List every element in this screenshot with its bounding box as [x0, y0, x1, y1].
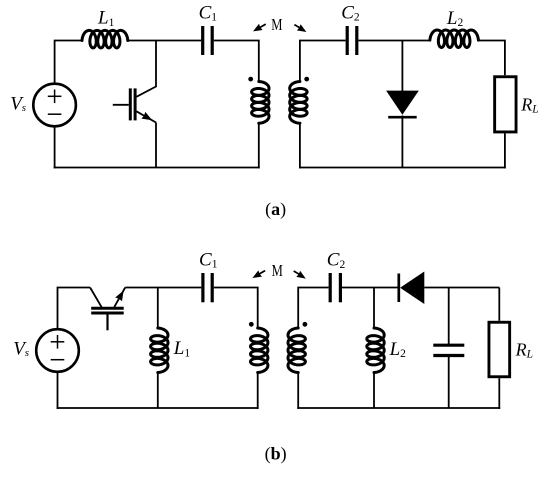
svg-text:C2: C2	[341, 2, 360, 23]
transformer primary winding La (circuit a)	[252, 82, 269, 124]
mutual coupling arrow right (circuit a)	[294, 24, 306, 32]
svg-text:Vs: Vs	[13, 339, 29, 360]
polarity dot: secondary (circuit b)	[303, 322, 308, 327]
wire: L2 to load rail (circuit a)	[478, 41, 505, 76]
wire: emitter to C1 with L1 tap (circuit b)	[125, 287, 201, 289]
wire: secondary to bottom rail (circuit a)	[299, 123, 301, 168]
capacitor C2 (circuit a)	[347, 26, 357, 55]
svg-text:M: M	[272, 261, 283, 280]
wire: secondary rail top (circuit a)	[300, 41, 346, 82]
polarity dot: primary (circuit b)	[249, 322, 254, 327]
wire: emitter to bottom rail (circuit a)	[155, 123, 157, 168]
transformer primary winding La (circuit b)	[251, 328, 268, 373]
transistor Q1 IGBT gate bar (circuit a)	[129, 88, 132, 120]
transistor Q2 IGBT gate bar (circuit b)	[91, 312, 124, 315]
transistor Q2 gate lead (circuit b)	[106, 315, 108, 331]
wire: Vs to bottom rail (circuit a)	[54, 126, 56, 168]
capacitor C3 output filter (circuit b)	[433, 345, 464, 355]
wire: primary to bottom rail (circuit a)	[258, 123, 260, 168]
svg-text:L1: L1	[173, 338, 191, 359]
wire: collector riser (circuit a)	[136, 41, 156, 97]
svg-text:C1: C1	[199, 2, 218, 23]
wire: load to bottom rail (circuit b)	[498, 378, 500, 409]
wire: L2 branch lower (circuit b)	[373, 373, 375, 409]
wire: load to bottom rail (circuit a)	[504, 133, 506, 168]
svg-text:L2: L2	[389, 339, 407, 360]
wire: primary to bottom rail (circuit b)	[257, 373, 259, 409]
wire: Vs to bottom rail (circuit b)	[57, 372, 59, 409]
wire: C2 to L2 with diode tap (circuit a)	[358, 40, 430, 42]
wire: C2 to diode with L2 tap (circuit b)	[342, 287, 398, 289]
wire: filter cap branch lower (circuit b)	[448, 357, 450, 408]
bottom rail secondary side (circuit b)	[297, 407, 500, 409]
wire: filter cap branch upper (circuit b)	[448, 288, 450, 345]
bottom rail secondary side (circuit a)	[299, 167, 506, 169]
wire: diode branch upper (circuit a)	[401, 41, 403, 92]
svg-text:(a): (a)	[265, 199, 286, 220]
mutual coupling arrow right (circuit b)	[294, 271, 306, 279]
polarity dot: secondary (circuit a)	[304, 77, 309, 82]
wire: C1 to primary rail (circuit a)	[214, 41, 259, 82]
resistor RL (circuit a)	[495, 77, 516, 132]
transformer secondary winding Lb (circuit a)	[290, 82, 307, 124]
svg-text:M: M	[271, 15, 282, 34]
resistor RL (circuit b)	[489, 322, 510, 377]
wire: load rail upper (circuit b)	[498, 288, 500, 321]
polarity dot: primary (circuit a)	[248, 77, 253, 82]
wire: secondary rail top (circuit b)	[298, 288, 328, 329]
wire: diode to filter cap tap (circuit b)	[424, 287, 499, 289]
svg-text:L2: L2	[446, 8, 464, 29]
mutual coupling arrow left (circuit b)	[252, 270, 265, 278]
diode D1 (circuit a)	[386, 91, 419, 118]
svg-text:RL: RL	[520, 95, 538, 116]
svg-text:L1: L1	[97, 8, 115, 29]
wire: L2 branch upper (circuit b)	[373, 288, 375, 329]
inductor L2 (circuit a)	[430, 30, 479, 48]
wire: L1 to C1 with transistor tap (circuit a)	[128, 40, 201, 42]
svg-text:C1: C1	[199, 249, 218, 270]
bottom rail primary side (circuit a)	[54, 167, 260, 169]
wire: top-left corner Vs to transistor (circuit b)	[58, 288, 91, 330]
capacitor C2 (circuit b)	[330, 273, 340, 302]
capacitor C1 (circuit a)	[203, 26, 213, 55]
transformer secondary winding Lb (circuit b)	[288, 328, 305, 373]
wire: C1 to primary rail (circuit b)	[214, 288, 258, 329]
svg-text:RL: RL	[515, 340, 533, 361]
svg-text:Vs: Vs	[10, 94, 26, 115]
wire: collector lead (circuit b)	[90, 288, 102, 308]
inductor L1 (circuit b)	[151, 328, 168, 373]
inductor L2 (circuit b)	[367, 328, 384, 373]
bottom rail primary side (circuit b)	[57, 407, 259, 409]
transistor Q2 emitter with arrow (circuit b)	[114, 288, 125, 308]
transistor Q1 IGBT body bar (circuit a)	[134, 88, 137, 120]
svg-text:(b): (b)	[265, 443, 287, 464]
diode D2 (circuit b)	[399, 272, 425, 305]
wire: L1 branch upper (circuit b)	[157, 288, 159, 329]
transistor Q1 emitter with arrow (circuit a)	[136, 111, 156, 122]
voltage source Vs (circuit a)	[33, 84, 76, 127]
voltage source Vs (circuit b)	[36, 329, 79, 372]
wire: top-left corner Vs to L1 (circuit a)	[55, 41, 82, 84]
svg-text:C2: C2	[327, 250, 346, 271]
transistor Q1 gate lead (circuit a)	[113, 104, 129, 106]
wire: L1 branch lower (circuit b)	[157, 373, 159, 409]
wire: secondary to bottom rail (circuit b)	[297, 373, 299, 409]
inductor L1 (circuit a)	[82, 30, 128, 48]
capacitor C1 (circuit b)	[203, 273, 212, 302]
transistor Q2 IGBT body bar (circuit b)	[91, 307, 124, 310]
mutual coupling arrow left (circuit a)	[253, 24, 266, 32]
wire: diode branch lower (circuit a)	[401, 116, 403, 168]
